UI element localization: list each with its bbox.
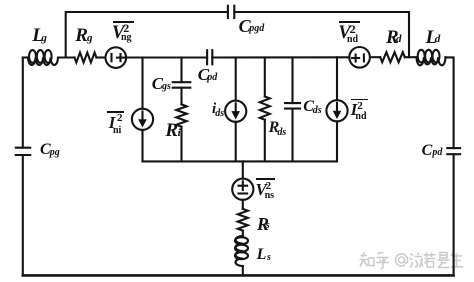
label L_s subscript s [267, 253, 271, 263]
label C_pd (right pad) main [422, 143, 433, 159]
label C_ds subscript ds [313, 106, 322, 116]
capacitor C_pg pad on left edge [16, 148, 30, 155]
label R_i main [165, 121, 178, 140]
label I_ni^2 superscript 2 [117, 113, 123, 124]
label L_g subscript g [41, 33, 47, 44]
wire: V_ns to R_s [242, 200, 244, 209]
label V_nd^2 main V [338, 24, 350, 43]
wire: I_ni branch top stub [141, 58, 143, 109]
wire: I_nd branch bottom stub [336, 121, 338, 161]
label C_pd (series) subscript pd [207, 73, 217, 83]
wire: R_s to L_s [242, 231, 244, 236]
wire: L_d to top-right corner down to C_pd [446, 57, 454, 148]
label R_ds main [269, 120, 280, 136]
wire: right edge below C_pd [453, 154, 455, 275]
wire: R_d to L_d [405, 56, 417, 58]
label L_g main [32, 26, 44, 45]
noise source V_nd circle [349, 47, 370, 68]
resistor R_g [75, 53, 97, 63]
label R_s main [257, 215, 269, 233]
resistor R_ds [260, 97, 270, 120]
label R_ds subscript ds [277, 128, 286, 138]
wire: C_gs to R_i [180, 88, 182, 105]
wire: bottom rail [23, 274, 454, 277]
label I_nd^2 overline [351, 99, 369, 101]
capacitor C_pgd [228, 6, 234, 18]
label C_pg subscript pg [50, 148, 60, 158]
label V_nd^2 overline [339, 21, 360, 23]
noise current source I_nd circle [326, 100, 347, 121]
wire: i_ds branch top stub [235, 58, 237, 101]
inductor L_g [28, 50, 58, 65]
label I_ni^2 subscript ni [113, 126, 121, 136]
label R_i subscript i [178, 128, 181, 139]
label I_ni^2 overline [107, 111, 124, 113]
V_ng polarity minus bar [110, 54, 112, 61]
label V_ns^2 main V [256, 182, 267, 199]
noise current source I_ni circle [132, 109, 153, 130]
wire: C_gs branch top stub [180, 58, 182, 83]
label R_s subscript s [266, 221, 270, 231]
label C_pgd main [239, 17, 251, 35]
label V_nd^2 superscript 2 [350, 23, 356, 35]
label L_s main [257, 247, 267, 263]
inductor L_d [417, 50, 446, 65]
label I_nd^2 superscript 2 [357, 101, 363, 112]
label C_gs subscript gs [162, 82, 171, 92]
I_nd arrow [333, 103, 342, 119]
label V_ns^2 superscript 2 [266, 181, 272, 192]
wire: C_pgd top rail right segment with riser [234, 12, 409, 57]
resistor R_s [238, 209, 248, 231]
label C_pd (series) main [198, 66, 209, 83]
label L_d subscript d [435, 34, 441, 45]
label C_ds main [303, 99, 314, 115]
wire: intrinsic bottom line [143, 160, 338, 162]
capacitor C_gs [173, 82, 191, 88]
capacitor C_pd pad on right edge [447, 148, 460, 154]
wire: i_ds branch bottom stub [235, 122, 237, 162]
label R_d subscript d [396, 34, 402, 45]
wire: L_s to bottom rail [242, 266, 244, 275]
wire: I_nd branch top stub [336, 57, 338, 100]
label I_nd^2 subscript nd [355, 112, 366, 122]
label i_ds subscript ds [215, 109, 224, 119]
resistor R_d [380, 52, 405, 62]
V_nd polarity minus bar [363, 54, 365, 61]
label V_ng^2 superscript 2 [123, 22, 129, 34]
i_ds arrow [231, 103, 240, 119]
wire: R_ds branch bottom stub [264, 120, 266, 162]
label i_ds main [212, 102, 216, 117]
label V_ns^2 overline [256, 178, 275, 180]
wire: R_ds branch top stub [264, 58, 266, 97]
wire: C_pgd top rail left segment with riser [66, 12, 228, 58]
V_ns polarity minus [239, 192, 248, 194]
label R_g subscript g [87, 33, 93, 44]
label I_nd^2 main I [351, 102, 357, 119]
label C_pgd subscript pgd [249, 24, 264, 34]
wire: C_ds branch top stub [291, 58, 293, 104]
I_ni arrow [138, 112, 147, 128]
label V_ng^2 overline [113, 21, 134, 23]
label R_d main [386, 28, 399, 47]
capacitor C_pd series in gate line [207, 50, 212, 64]
inductor L_s [235, 236, 248, 266]
V_ng polarity plus [117, 54, 124, 61]
resistor R_i [176, 104, 186, 126]
wire: V_ng to series C_pd [126, 56, 207, 58]
label V_nd^2 subscript nd [347, 35, 358, 45]
wire: gate line left corner to L_g [23, 56, 28, 58]
wire: R_i branch bottom stub [180, 127, 182, 162]
label I_ni^2 main I [109, 115, 115, 132]
capacitor C_ds [285, 103, 300, 109]
wire: left edge above C_pg [22, 58, 24, 148]
wire: left edge below C_pg [22, 155, 24, 275]
label C_pg main [40, 142, 51, 158]
wire: R_g to V_ng source [96, 56, 105, 58]
wire: I_ni branch bottom stub [141, 130, 143, 162]
noise source V_ns circle [232, 179, 253, 200]
wire: L_g to R_g [58, 56, 75, 58]
noise source V_ng circle [106, 47, 127, 68]
label L_d main [426, 28, 438, 47]
wire: C_ds branch bottom stub [291, 109, 293, 162]
V_ns polarity plus [239, 181, 248, 190]
wire: V_nd to R_d [370, 56, 380, 58]
controlled current source i_ds circle [225, 101, 246, 122]
wire: source stem to V_ns [242, 161, 244, 178]
V_nd polarity plus [352, 55, 359, 62]
label R_g main [75, 26, 88, 45]
wire: series C_pd to drain node [212, 56, 349, 58]
label C_gs main [152, 75, 163, 92]
label V_ng^2 subscript ng [121, 33, 132, 43]
label C_pd (right pad) subscript pd [432, 148, 442, 158]
label V_ns^2 subscript ns [265, 191, 274, 201]
label V_ng^2 main V [112, 24, 124, 43]
